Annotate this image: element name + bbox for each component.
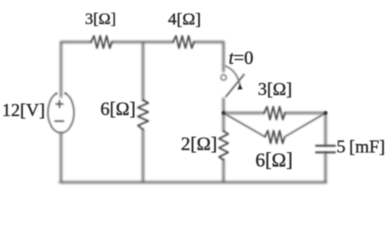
wire cap bottom xyxy=(325,153,327,182)
wire bottom rail xyxy=(60,181,326,183)
wire below source xyxy=(60,133,62,182)
wire node drop xyxy=(223,99,225,114)
wire lens diag right xyxy=(285,113,326,137)
resistor 3 ohm right xyxy=(264,107,285,120)
wire top rail right segment xyxy=(194,41,224,43)
svg-text:6[Ω]: 6[Ω] xyxy=(255,151,292,172)
capacitor C 5mF plates xyxy=(316,146,335,153)
resistor 2 ohm vertical xyxy=(219,131,228,160)
svg-text:3[Ω]: 3[Ω] xyxy=(258,79,292,99)
switch arrow head xyxy=(237,84,242,90)
node left junction xyxy=(222,111,226,115)
wire 6ohm branch bottom xyxy=(142,130,144,183)
wire lens top left xyxy=(224,112,265,114)
source gap end dots xyxy=(55,93,57,95)
svg-text:12[V]: 12[V] xyxy=(2,100,45,120)
voltage source V1 circle xyxy=(48,93,74,133)
wire cap top xyxy=(325,113,327,145)
resistor 4 ohm top xyxy=(173,36,194,48)
voltage source minus xyxy=(55,120,64,122)
node right junction xyxy=(324,111,328,115)
resistor 6 ohm middle vertical xyxy=(138,100,148,130)
svg-text:3[Ω]: 3[Ω] xyxy=(85,9,116,28)
wire 2ohm branch bottom xyxy=(223,160,225,182)
wire top rail middle segment xyxy=(112,41,173,43)
wire switch drop xyxy=(223,42,225,72)
resistor 6 ohm bottom xyxy=(265,131,285,144)
wire 6ohm branch top xyxy=(142,42,144,100)
wire lens diag left xyxy=(224,113,266,137)
switch blade xyxy=(226,75,244,97)
svg-text:2[Ω]: 2[Ω] xyxy=(181,134,217,155)
svg-text:t=0: t=0 xyxy=(229,49,254,69)
switch contact circle xyxy=(221,75,226,80)
wire 2ohm branch top xyxy=(223,113,225,131)
wire top-left vertical xyxy=(60,42,62,97)
resistor 3 ohm top xyxy=(91,36,112,48)
svg-text:6[Ω]: 6[Ω] xyxy=(100,100,135,120)
wire top rail left segment xyxy=(61,41,91,43)
switch motion arc xyxy=(226,66,240,84)
voltage source plus xyxy=(56,101,63,108)
svg-text:4[Ω]: 4[Ω] xyxy=(168,10,201,29)
svg-text:5 [mF]: 5 [mF] xyxy=(337,137,385,157)
wire lens top right xyxy=(285,112,326,114)
